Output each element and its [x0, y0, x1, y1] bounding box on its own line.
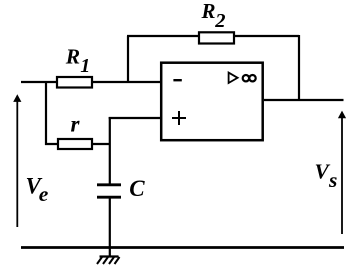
op-amp U1 [161, 63, 263, 141]
svg-text:C: C [129, 176, 145, 201]
wire: input node to inverting input of op-amp (through R1) [21, 81, 160, 83]
svg-text:2: 2 [214, 10, 225, 32]
wire: vertical from non-inverting wire down to capacitor C top plate [109, 117, 111, 185]
svg-text:e: e [39, 182, 49, 206]
svg-text:1: 1 [80, 55, 90, 77]
op-amp inverting input marker "-" [173, 79, 181, 81]
resistor R2 [199, 32, 234, 43]
capacitor C [97, 185, 121, 197]
op-amp non-inverting input marker "+" [172, 111, 186, 125]
resistor R1 [57, 77, 92, 88]
svg-text:r: r [71, 112, 81, 137]
wire: op-amp output wire [264, 99, 344, 101]
label Vs [315, 160, 338, 193]
wire: feedback tap vertical from inverting wire up to R2 line [127, 36, 129, 82]
svg-text:R: R [65, 45, 80, 69]
label R2 [201, 0, 226, 32]
voltage arrow Ve (input) [13, 94, 21, 227]
wire: capacitor bottom plate down to ground [109, 197, 111, 258]
voltage arrow Vs (output) [338, 111, 346, 234]
svg-text:s: s [328, 168, 337, 192]
wire: feedback right vertical down to output wire [298, 35, 300, 100]
wire: bottom ground rail [21, 246, 344, 249]
resistor r [58, 139, 92, 149]
wire: branch from input wire down to resistor r [45, 81, 47, 145]
wire: through resistor r to capacitor top node [45, 143, 110, 145]
op-amp ideal gain symbol: open triangle [229, 73, 238, 83]
wire: top feedback wire through R2 [127, 35, 299, 37]
svg-text:R: R [201, 0, 216, 23]
label Ve [26, 174, 49, 206]
ground [97, 257, 120, 265]
op-amp ideal gain symbol: infinity [243, 75, 256, 81]
label R1 [65, 45, 91, 77]
wire: non-inverting input wire to op-amp [109, 117, 160, 119]
